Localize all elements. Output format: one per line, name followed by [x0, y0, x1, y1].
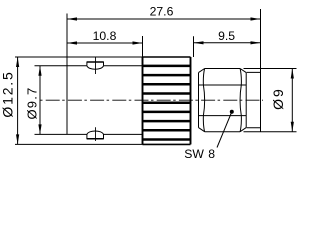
svg-text:Ø9.7: Ø9.7 [25, 87, 40, 120]
wire dim line 9.5 [194, 42, 261, 44]
wire shell top edge with diam9.7 ext [35, 65, 143, 67]
svg-text:SW: SW [184, 147, 204, 161]
wire dim line 27.6 [67, 18, 261, 20]
svg-text:8: 8 [208, 147, 215, 161]
wire ext line x193.5 [193, 36, 195, 57]
node bayonet lug top [87, 58, 104, 75]
arrow diam9.7 down [38, 124, 41, 134]
node knurled body [143, 57, 191, 144]
wire ext line left x67 [66, 14, 68, 135]
wire hex top edge with diam9 ext [244, 68, 297, 70]
centerline axis [40, 99, 263, 101]
svg-text:Ø12.5: Ø12.5 [0, 70, 16, 117]
wire dim line diam12.5 [17, 57, 19, 144]
node hex nut SW8 [199, 69, 247, 132]
wire ext line x142.5 [142, 36, 144, 57]
wire dim line diam9.7 [39, 66, 41, 135]
arrow 10.8 left [67, 41, 77, 44]
wire dim line 10.8 [67, 42, 143, 44]
wire leader SW8 [217, 113, 232, 148]
wire ext line diam12.5 top [15, 56, 143, 58]
wire hex bottom edge with diam9 ext [244, 131, 297, 133]
arrow 10.8 right [133, 41, 143, 44]
arrow diam9.7 up [38, 66, 41, 76]
wire shell bottom edge with diam9.7 ext [35, 133, 143, 135]
wire ext line right x260.5 [260, 9, 262, 132]
arrow 9.5 right [251, 41, 261, 44]
wire ext line diam12.5 bottom [15, 143, 143, 145]
arrow diam9 down [291, 122, 294, 132]
svg-text:9.5: 9.5 [218, 29, 235, 43]
svg-text:10.8: 10.8 [93, 29, 117, 43]
node bayonet lug bottom [87, 127, 104, 141]
svg-text:Ø9: Ø9 [270, 87, 286, 110]
arrow 9.5 left [194, 41, 204, 44]
arrow diam9 up [291, 69, 294, 79]
arrow 27.6 right [251, 17, 261, 20]
arrow diam12.5 down [16, 134, 19, 144]
arrow 27.6 left [67, 17, 77, 20]
arrow diam12.5 up [16, 57, 19, 67]
node rear cylinder [247, 72, 261, 127]
wire dim line diam9 [291, 69, 293, 132]
arrowheads [16, 17, 294, 144]
svg-text:27.6: 27.6 [150, 5, 174, 19]
node leader dot [230, 110, 234, 114]
